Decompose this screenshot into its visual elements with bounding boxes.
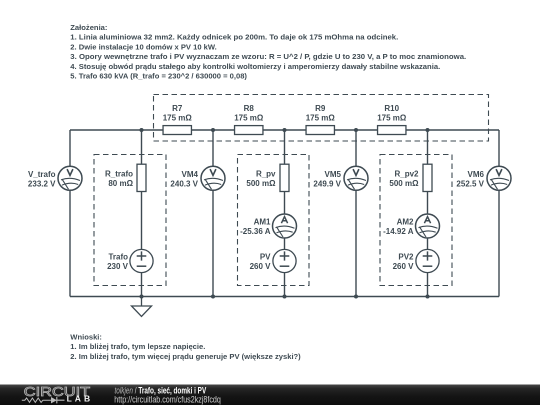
svg-text:2. Dwie instalacje 10 domów x: 2. Dwie instalacje 10 domów x PV 10 kW. bbox=[70, 42, 216, 51]
svg-text:500 mΩ: 500 mΩ bbox=[389, 179, 419, 188]
svg-text:233.2 V: 233.2 V bbox=[28, 179, 56, 188]
svg-text:175 mΩ: 175 mΩ bbox=[234, 114, 264, 123]
wire branch VM5 bbox=[355, 130, 357, 297]
svg-text:Wnioski:: Wnioski: bbox=[70, 333, 102, 342]
voltage source Trafo bbox=[130, 249, 153, 272]
svg-text:VM6: VM6 bbox=[468, 170, 485, 179]
svg-text:VM4: VM4 bbox=[182, 170, 199, 179]
svg-text:3. Opory wewnętrzne trafo i PV: 3. Opory wewnętrzne trafo i PV wyznaczam… bbox=[70, 52, 466, 61]
wire bottom bus bbox=[70, 296, 499, 298]
svg-text:175 mΩ: 175 mΩ bbox=[306, 114, 336, 123]
logo resistor-diode symbol bbox=[22, 398, 52, 402]
node junction bottom 3 bbox=[283, 295, 287, 299]
voltmeter VM5 bbox=[344, 166, 368, 190]
resistor R10 bbox=[378, 126, 406, 135]
wire top bus bbox=[70, 129, 499, 131]
svg-text:PV: PV bbox=[260, 252, 271, 261]
svg-text:-14.92 A: -14.92 A bbox=[383, 227, 414, 236]
svg-text:R_trafo: R_trafo bbox=[105, 170, 133, 179]
svg-text:1. Linia aluminiowa 32 mm2. Ka: 1. Linia aluminiowa 32 mm2. Każdy odnice… bbox=[70, 33, 398, 42]
node junction top 1 bbox=[140, 128, 144, 132]
svg-text:http://circuitlab.com/cfus2kzj: http://circuitlab.com/cfus2kzj8fcdq bbox=[114, 395, 221, 405]
svg-text:-25.36 A: -25.36 A bbox=[240, 227, 271, 236]
svg-text:175 mΩ: 175 mΩ bbox=[163, 114, 193, 123]
svg-text:R7: R7 bbox=[172, 104, 183, 113]
resistor R_trafo bbox=[137, 164, 146, 191]
svg-text:Trafo: Trafo bbox=[108, 252, 128, 261]
svg-text:4. Stosuję obwód prądu stałego: 4. Stosuję obwód prądu stałego aby kontr… bbox=[70, 62, 440, 71]
svg-text:LAB: LAB bbox=[67, 394, 91, 404]
svg-text:AM1: AM1 bbox=[254, 217, 271, 226]
enclosure box: PV2 bbox=[380, 155, 452, 286]
svg-text:R_pv2: R_pv2 bbox=[394, 170, 419, 179]
resistor R7 bbox=[163, 126, 191, 135]
voltmeter VM6 bbox=[487, 166, 511, 190]
svg-text:260 V: 260 V bbox=[250, 262, 272, 271]
node junction bottom 1 bbox=[140, 295, 144, 299]
wire branch VM4 bbox=[212, 130, 214, 297]
node junction bottom 4 bbox=[354, 295, 358, 299]
svg-text:VM5: VM5 bbox=[325, 170, 342, 179]
node junction top 3 bbox=[283, 128, 287, 132]
ammeter AM2 bbox=[416, 214, 440, 238]
node junction top 4 bbox=[354, 128, 358, 132]
wire branch Trafo bbox=[141, 130, 143, 297]
resistor R_pv2 bbox=[423, 164, 432, 191]
svg-text:R8: R8 bbox=[244, 104, 255, 113]
svg-text:249.9 V: 249.9 V bbox=[313, 179, 341, 188]
svg-text:1. Im bliżej trafo, tym lepsze: 1. Im bliżej trafo, tym lepsze napięcie. bbox=[70, 342, 205, 351]
wire branch VM6 bbox=[498, 130, 500, 297]
svg-text:252.5 V: 252.5 V bbox=[456, 179, 484, 188]
enclosure box: PV bbox=[238, 155, 310, 286]
resistor R8 bbox=[235, 126, 263, 135]
resistor R_pv bbox=[280, 164, 289, 191]
svg-text:AM2: AM2 bbox=[397, 217, 414, 226]
svg-text:240.3 V: 240.3 V bbox=[170, 179, 198, 188]
enclosure box: line R7-R10 bbox=[154, 95, 489, 142]
svg-text:R9: R9 bbox=[315, 104, 326, 113]
node junction bottom 5 bbox=[426, 295, 430, 299]
resistor R9 bbox=[306, 126, 334, 135]
svg-text:PV2: PV2 bbox=[398, 252, 414, 261]
voltage source PV bbox=[273, 249, 296, 272]
svg-text:R10: R10 bbox=[384, 104, 399, 113]
wire branch V_trafo bbox=[69, 130, 71, 297]
voltage source PV2 bbox=[416, 249, 439, 272]
svg-text:Założenia:: Założenia: bbox=[70, 23, 107, 32]
node junction bottom 2 bbox=[211, 295, 215, 299]
enclosure box: Trafo bbox=[94, 155, 166, 286]
node junction top 5 bbox=[426, 128, 430, 132]
svg-text:230 V: 230 V bbox=[107, 262, 129, 271]
ground bbox=[132, 297, 152, 317]
svg-text:175 mΩ: 175 mΩ bbox=[377, 114, 407, 123]
wire branch PV2 bbox=[427, 130, 429, 297]
svg-text:5. Trafo 630 kVA (R_trafo = 23: 5. Trafo 630 kVA (R_trafo = 230^2 / 6300… bbox=[70, 72, 247, 81]
ammeter AM1 bbox=[273, 214, 297, 238]
svg-text:R_pv: R_pv bbox=[256, 170, 276, 179]
svg-text:260 V: 260 V bbox=[393, 262, 415, 271]
voltmeter VM4 bbox=[201, 166, 225, 190]
svg-text:80 mΩ: 80 mΩ bbox=[108, 179, 133, 188]
node junction top 2 bbox=[211, 128, 215, 132]
svg-text:V_trafo: V_trafo bbox=[28, 170, 56, 179]
voltmeter V_trafo bbox=[58, 166, 82, 190]
svg-text:500 mΩ: 500 mΩ bbox=[246, 179, 276, 188]
wire branch PV bbox=[284, 130, 286, 297]
svg-text:2. Im bliżej trafo, tym więcej: 2. Im bliżej trafo, tym więcej prądu gen… bbox=[70, 352, 301, 361]
